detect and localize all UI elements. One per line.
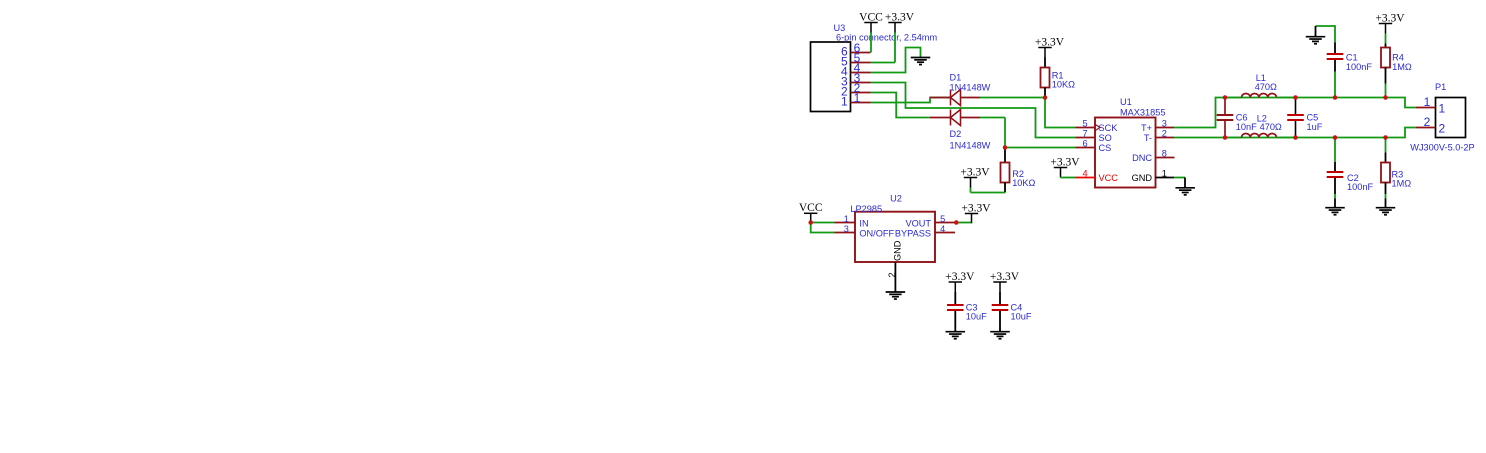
svg-text:T-: T- [1144,133,1152,143]
svg-text:1uF: 1uF [1307,122,1323,132]
svg-text:10KΩ: 10KΩ [1052,80,1075,90]
svg-text:SO: SO [1099,133,1112,143]
svg-text:U1: U1 [1120,97,1132,107]
svg-text:10KΩ: 10KΩ [1012,178,1035,188]
svg-text:470Ω: 470Ω [1260,122,1282,132]
svg-text:MAX31855: MAX31855 [1120,107,1165,117]
svg-text:IN: IN [859,219,868,229]
svg-text:DNC: DNC [1132,153,1152,163]
svg-text:10uF: 10uF [966,312,987,322]
svg-text:D2: D2 [950,129,962,139]
svg-text:1: 1 [1162,169,1167,179]
svg-text:8: 8 [1162,149,1167,159]
svg-text:BYPASS: BYPASS [895,229,931,239]
svg-text:100nF: 100nF [1346,62,1372,72]
svg-text:4: 4 [1082,169,1087,179]
svg-text:VOUT: VOUT [905,219,931,229]
svg-text:5: 5 [1082,119,1087,129]
svg-text:2: 2 [887,272,897,277]
svg-text:+3.3V: +3.3V [1035,36,1065,48]
svg-text:ON/OFF: ON/OFF [859,229,894,239]
svg-text:470Ω: 470Ω [1255,82,1277,92]
svg-text:GND: GND [1132,173,1153,183]
svg-text:1MΩ: 1MΩ [1392,62,1412,72]
svg-text:1N4148W: 1N4148W [950,82,991,92]
svg-text:5: 5 [940,214,945,224]
svg-text:1: 1 [1439,102,1446,116]
svg-text:LP2985: LP2985 [850,204,882,214]
svg-text:+3.3V: +3.3V [990,271,1020,283]
svg-text:WJ300V-5.0-2P: WJ300V-5.0-2P [1410,143,1474,153]
svg-text:+3.3V: +3.3V [1375,12,1405,24]
svg-text:2: 2 [1162,129,1167,139]
svg-text:4: 4 [940,224,945,234]
svg-text:1: 1 [1424,95,1431,109]
svg-text:6: 6 [1082,139,1087,149]
svg-text:2: 2 [1439,122,1446,136]
svg-text:3: 3 [844,224,849,234]
svg-text:+3.3V: +3.3V [1050,156,1080,168]
svg-text:6-pin connector, 2.54mm: 6-pin connector, 2.54mm [836,33,937,43]
svg-text:1MΩ: 1MΩ [1392,179,1412,189]
svg-text:+3.3V: +3.3V [960,166,990,178]
svg-text:R4: R4 [1392,53,1404,63]
svg-text:1: 1 [854,91,861,105]
svg-text:10nF: 10nF [1236,122,1257,132]
svg-text:1: 1 [844,214,849,224]
svg-text:T+: T+ [1141,123,1152,133]
svg-text:+3.3V: +3.3V [961,202,991,214]
svg-text:CS: CS [1099,143,1112,153]
svg-text:VCC: VCC [799,202,823,214]
svg-text:U3: U3 [834,23,846,33]
svg-text:P1: P1 [1435,82,1446,92]
svg-text:+3.3V: +3.3V [945,271,975,283]
svg-text:100nF: 100nF [1347,182,1373,192]
svg-text:SCK: SCK [1099,123,1119,133]
svg-text:2: 2 [1424,115,1431,129]
svg-text:C1: C1 [1346,53,1358,63]
svg-text:3: 3 [1162,119,1167,129]
svg-text:D1: D1 [950,73,962,83]
svg-text:1N4148W: 1N4148W [950,140,991,150]
svg-text:7: 7 [1082,129,1087,139]
svg-text:1: 1 [841,95,848,109]
svg-text:10uF: 10uF [1011,312,1032,322]
svg-text:+3.3V: +3.3V [885,11,915,23]
svg-text:U2: U2 [890,194,902,204]
svg-text:VCC: VCC [1099,173,1119,183]
svg-text:VCC: VCC [859,11,883,23]
svg-text:GND: GND [893,240,903,261]
